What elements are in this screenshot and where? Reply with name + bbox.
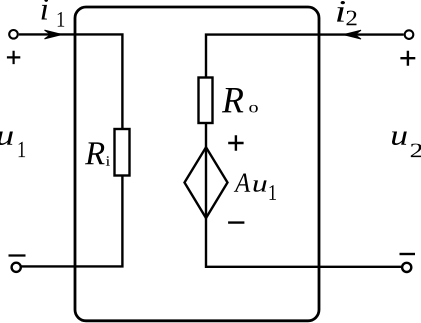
current arrow i1 (45, 30, 63, 39)
current arrow i2 (344, 30, 362, 39)
terminal: top-right output (405, 30, 414, 39)
minus bar at bottom-right terminal (400, 253, 416, 255)
label u2 (392, 132, 421, 158)
dependent source Au1 (diamond) (185, 147, 228, 218)
plus sign of dependent source (228, 135, 243, 150)
label i1 (42, 0, 65, 27)
label Ri (85, 142, 110, 165)
label i2 (337, 1, 357, 25)
wire: top-right terminal to Ro top (206, 35, 404, 78)
label Au1 (234, 174, 276, 200)
terminal: bottom-right (402, 263, 411, 272)
terminal: bottom-left (12, 263, 21, 272)
wire: bottom-left terminal to Ri bottom (22, 175, 123, 266)
label Ro (222, 88, 258, 112)
plus sign at top-right terminal (400, 51, 415, 66)
label u1 (0, 132, 25, 158)
resistor Ro (199, 78, 213, 124)
wire: Ro bottom to dependent source top (205, 123, 207, 148)
resistor Ri (115, 129, 130, 176)
plus sign at top-left terminal (7, 51, 20, 64)
wire: top-left terminal to Ri top (19, 34, 123, 129)
minus bar of dependent source (228, 221, 244, 223)
minus bar at bottom-left terminal (9, 254, 26, 256)
two-port network box outline (75, 7, 319, 321)
wire: dependent source bottom to bottom-right terminal (206, 218, 402, 267)
terminal: top-left input (9, 30, 18, 39)
